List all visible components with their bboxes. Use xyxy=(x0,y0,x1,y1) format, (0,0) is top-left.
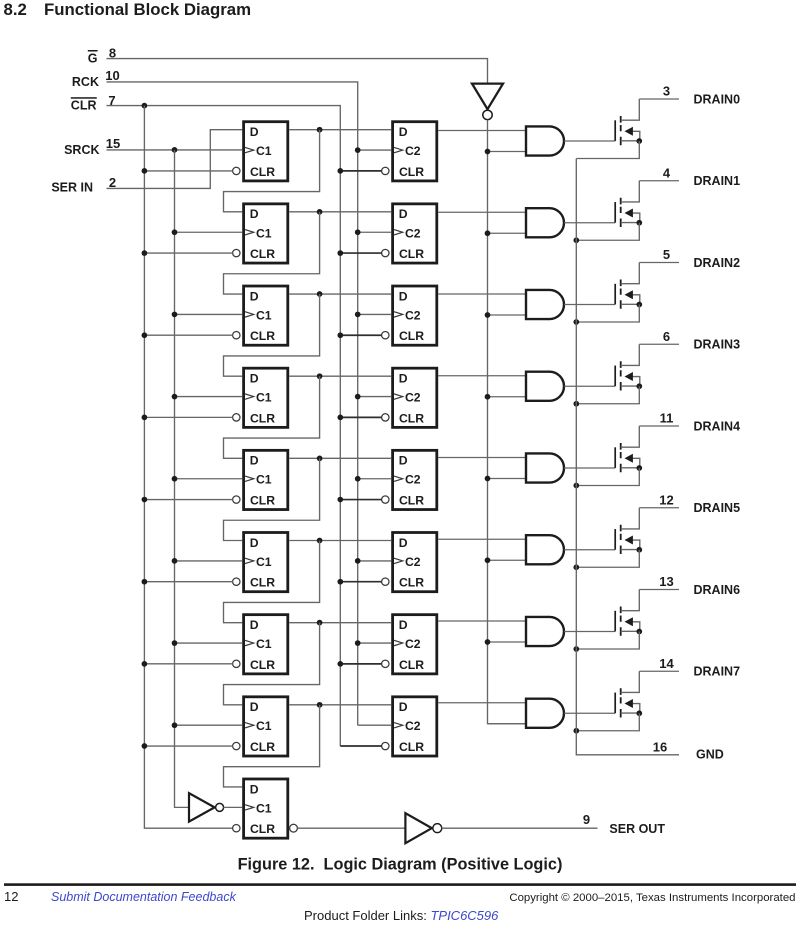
pin 8 label xyxy=(109,45,116,60)
svg-text:SER OUT: SER OUT xyxy=(609,822,665,836)
wire inverter U2 to FF9 clock xyxy=(223,806,242,808)
junction mosfet DRAIN4 source xyxy=(636,465,642,471)
wire C2 CLR rail to C2 stage 1 CLR xyxy=(340,170,381,172)
svg-text:DRAIN5: DRAIN5 xyxy=(694,501,741,515)
svg-text:15: 15 xyxy=(106,136,120,151)
pin 9 label xyxy=(583,812,590,827)
junction SRCK rail stage 3 xyxy=(172,312,178,318)
pin 11 label xyxy=(660,411,674,426)
svg-text:CLR: CLR xyxy=(399,658,424,672)
wire AND 4 output to gate xyxy=(564,385,615,387)
input label SRCK xyxy=(64,143,99,157)
junction C1 CLR rail stage 8 xyxy=(142,743,148,749)
svg-text:C2: C2 xyxy=(405,719,421,733)
section heading 8.2 xyxy=(4,0,27,19)
wire C2 CLR rail to C2 stage 5 CLR xyxy=(340,499,381,501)
wire G input to inverter xyxy=(107,59,488,84)
junction RCK rail stage 6 xyxy=(355,558,361,564)
svg-text:DRAIN0: DRAIN0 xyxy=(694,92,741,106)
wire Q1 to next stage D xyxy=(224,212,320,294)
svg-text:D: D xyxy=(250,700,259,714)
svg-text:CLR: CLR xyxy=(250,822,275,836)
svg-text:CLR: CLR xyxy=(399,493,424,507)
wire RCK rail to C2 stage 7 clock xyxy=(358,642,392,644)
input label SER IN xyxy=(51,181,93,195)
wire SRCK input to FF1 clock xyxy=(107,149,243,151)
D flip-flop C2 stage 6 xyxy=(382,533,437,592)
wire SRCK rail to bottom inverter xyxy=(175,150,189,807)
pin 12 label xyxy=(659,492,673,507)
svg-text:2: 2 xyxy=(109,175,116,190)
svg-text:C2: C2 xyxy=(405,473,421,487)
junction C2 CLR rail stage 5 xyxy=(337,497,343,503)
svg-text:D: D xyxy=(399,289,408,303)
junction mosfet DRAIN5 source xyxy=(636,547,642,553)
junction GND rail row 8 xyxy=(573,728,579,734)
label DRAIN7 xyxy=(694,665,741,679)
wire G rail to AND gate 1 xyxy=(488,151,527,153)
mosfet Q2 (power DMOS DRAIN2) xyxy=(615,263,640,309)
svg-text:D: D xyxy=(399,125,408,139)
wire DRAIN1 source to GND rail xyxy=(576,223,639,241)
svg-text:16: 16 xyxy=(653,740,667,755)
svg-text:DRAIN1: DRAIN1 xyxy=(694,174,741,188)
D flip-flop C2 stage 4 xyxy=(382,368,437,427)
wire RCK rail to C2 stage 1 clock xyxy=(358,149,392,151)
wire C1 stage 1 Q to C2 stage 1 D xyxy=(289,129,391,131)
wire AND 6 output to gate xyxy=(564,549,615,551)
svg-text:SRCK: SRCK xyxy=(64,143,99,157)
wire Q0 to next stage D xyxy=(224,130,320,212)
junction mosfet DRAIN6 source xyxy=(636,629,642,635)
svg-text:DRAIN7: DRAIN7 xyxy=(694,665,741,679)
pin 15 label xyxy=(106,136,120,151)
mosfet Q0 (power DMOS DRAIN0) xyxy=(615,99,640,145)
svg-text:11: 11 xyxy=(660,411,674,426)
pin 7 label xyxy=(108,93,115,108)
and-gate A3 xyxy=(526,372,564,401)
label DRAIN4 xyxy=(694,419,741,433)
wire pin DRAIN3 xyxy=(639,343,679,345)
junction G rail stage 1 xyxy=(485,149,491,155)
svg-text:C1: C1 xyxy=(256,637,272,651)
junction G rail stage 5 xyxy=(485,476,491,482)
D flip-flop C2 stage 3 xyxy=(382,286,437,345)
junction GND rail row 2 xyxy=(573,237,579,243)
junction GND rail row 7 xyxy=(573,646,579,652)
wire C2 stage 4 Q to AND gate xyxy=(438,375,526,377)
wire G rail to AND gate 8 xyxy=(488,723,527,725)
svg-text:D: D xyxy=(250,289,259,303)
wire C1 stage 2 Q to C2 stage 2 D xyxy=(289,211,391,213)
svg-text:CLR: CLR xyxy=(250,576,275,590)
and-gate A6 xyxy=(526,617,564,646)
svg-text:D: D xyxy=(399,618,408,632)
wire AND 5 output to gate xyxy=(564,467,615,469)
wire Q3 to next stage D xyxy=(224,376,320,458)
junction C1 CLR rail stage 1 xyxy=(142,168,148,174)
D flip-flop FF9 (SER OUT stage) xyxy=(233,779,288,838)
wire DRAIN0 source to GND rail xyxy=(576,141,639,159)
wire SRCK rail to C1 stage 2 clock xyxy=(175,231,243,233)
svg-text:CLR: CLR xyxy=(71,99,97,113)
svg-text:C1: C1 xyxy=(256,391,272,405)
junction SRCK / SRCK rail xyxy=(172,147,178,153)
and-gate A5 xyxy=(526,535,564,564)
pin 3 label xyxy=(663,84,670,99)
svg-text:CLR: CLR xyxy=(399,247,424,261)
junction C2 CLR rail stage 6 xyxy=(337,579,343,585)
D flip-flop C1 stage 5 xyxy=(233,450,288,509)
wire CLR rail to C1 stage 4 CLR xyxy=(144,416,232,418)
D flip-flop C2 stage 1 xyxy=(382,122,437,181)
svg-text:GND: GND xyxy=(696,748,724,762)
junction C2 CLR rail stage 4 xyxy=(337,415,343,421)
svg-text:SER IN: SER IN xyxy=(51,181,93,195)
svg-text:C2: C2 xyxy=(405,637,421,651)
svg-text:C1: C1 xyxy=(256,308,272,322)
wire Q2 to next stage D xyxy=(224,294,320,376)
pin 6 label xyxy=(663,329,670,344)
junction RCK rail stage 4 xyxy=(355,394,361,400)
svg-text:3: 3 xyxy=(663,84,670,99)
junction RCK rail stage 5 xyxy=(355,476,361,482)
wire AND 2 output to gate xyxy=(564,222,615,224)
junction G rail stage 6 xyxy=(485,557,491,563)
wire G rail to AND gate 5 xyxy=(488,478,527,480)
junction GND rail row 5 xyxy=(573,483,579,489)
junction SRCK rail stage 7 xyxy=(172,640,178,646)
wire pin DRAIN4 xyxy=(639,425,679,427)
wire pin DRAIN7 xyxy=(639,670,679,672)
svg-text:C1: C1 xyxy=(256,801,272,815)
wire pin DRAIN6 xyxy=(639,589,679,591)
label DRAIN5 xyxy=(694,501,741,515)
svg-text:CLR: CLR xyxy=(250,493,275,507)
svg-text:4: 4 xyxy=(663,165,671,180)
junction C2 CLR rail stage 3 xyxy=(337,332,343,338)
svg-text:DRAIN3: DRAIN3 xyxy=(694,338,741,352)
svg-text:D: D xyxy=(250,125,259,139)
svg-text:DRAIN6: DRAIN6 xyxy=(694,583,741,597)
D flip-flop C1 stage 7 xyxy=(233,615,288,674)
junction node Q6 shift output xyxy=(317,620,323,626)
wire pin DRAIN0 xyxy=(639,98,679,100)
and-gate A1 xyxy=(526,208,564,237)
wire AND 8 output to gate xyxy=(564,712,615,714)
wire DRAIN4 source to GND rail xyxy=(576,468,639,486)
inverter U2 (SRCK invert for SER OUT stage) xyxy=(189,793,224,821)
wire C2 stage 8 Q to AND gate xyxy=(438,702,526,704)
pin 16 label xyxy=(653,740,667,755)
junction G rail stage 4 xyxy=(485,394,491,400)
junction C1 CLR rail stage 7 xyxy=(142,661,148,667)
svg-text:9: 9 xyxy=(583,812,590,827)
svg-text:CLR: CLR xyxy=(250,329,275,343)
wire AND 1 output to gate xyxy=(564,140,615,142)
wire C1 stage 8 Q to C2 stage 8 D xyxy=(289,704,391,706)
junction C1 CLR rail stage 5 xyxy=(142,497,148,503)
wire DRAIN7 source to GND rail xyxy=(576,713,639,731)
svg-text:6: 6 xyxy=(663,329,670,344)
junction C2 CLR rail stage 2 xyxy=(337,250,343,256)
wire pin DRAIN1 xyxy=(639,180,679,182)
wire SRCK rail to C1 stage 5 clock xyxy=(175,478,243,480)
pin 4 label xyxy=(663,165,671,180)
svg-text:CLR: CLR xyxy=(250,658,275,672)
junction node Q7 shift output xyxy=(317,702,323,708)
wire SRCK rail to C1 stage 8 clock xyxy=(175,724,243,726)
svg-text:C2: C2 xyxy=(405,226,421,240)
wire C1 stage 6 Q to C2 stage 6 D xyxy=(289,540,391,542)
junction C2 CLR rail stage 1 xyxy=(337,168,343,174)
wire SER IN to FF1 D xyxy=(107,130,243,189)
junction RCK rail stage 3 xyxy=(355,312,361,318)
wire G rail to AND gate 2 xyxy=(488,232,527,234)
svg-text:13: 13 xyxy=(659,574,673,589)
wire CLR rail to C1 stage 1 CLR xyxy=(144,170,232,172)
junction GND rail row 3 xyxy=(573,319,579,325)
wire SRCK rail to C1 stage 6 clock xyxy=(175,560,243,562)
svg-text:C1: C1 xyxy=(256,226,272,240)
junction GND rail row 4 xyxy=(573,401,579,407)
wire C2 stage 2 Q to AND gate xyxy=(438,211,526,213)
svg-text:RCK: RCK xyxy=(72,75,99,89)
svg-text:C2: C2 xyxy=(405,144,421,158)
label DRAIN6 xyxy=(694,583,741,597)
input label G-bar xyxy=(88,52,98,66)
mosfet Q5 (power DMOS DRAIN5) xyxy=(615,508,640,554)
svg-text:CLR: CLR xyxy=(250,247,275,261)
junction G rail stage 7 xyxy=(485,639,491,645)
svg-text:CLR: CLR xyxy=(399,165,424,179)
svg-text:CLR: CLR xyxy=(399,576,424,590)
pin 5 label xyxy=(663,247,670,262)
wire CLR rail to C1 stage 3 CLR xyxy=(144,334,232,336)
D flip-flop C1 stage 2 xyxy=(233,204,288,263)
wire SRCK rail to C1 stage 4 clock xyxy=(175,396,243,398)
wire RCK rail to C2 stage 6 clock xyxy=(358,560,392,562)
figure caption xyxy=(238,856,563,874)
svg-text:12: 12 xyxy=(659,492,673,507)
svg-text:D: D xyxy=(250,207,259,221)
wire SRCK rail to C1 stage 7 clock xyxy=(175,642,243,644)
wire pin DRAIN5 xyxy=(639,507,679,509)
wire C2 stage 3 Q to AND gate xyxy=(438,293,526,295)
wire CLR rail to C1 stage 5 CLR xyxy=(144,499,232,501)
junction SRCK rail stage 6 xyxy=(172,558,178,564)
junction mosfet DRAIN7 source xyxy=(636,710,642,716)
mosfet Q1 (power DMOS DRAIN1) xyxy=(615,181,640,227)
junction node Q1 shift output xyxy=(317,209,323,215)
svg-text:Submit Documentation Feedback: Submit Documentation Feedback xyxy=(51,890,237,904)
pin 10 label xyxy=(105,68,119,83)
junction C1 CLR rail stage 3 xyxy=(142,332,148,338)
label DRAIN0 xyxy=(694,92,741,106)
wire G rail to AND gates xyxy=(488,120,527,724)
wire C2 CLR rail to C2 stage 6 CLR xyxy=(340,581,381,583)
junction mosfet DRAIN2 source xyxy=(636,302,642,308)
wire Q5 to next stage D xyxy=(224,541,320,623)
junction node Q0 shift output xyxy=(317,127,323,133)
junction RCK rail stage 1 xyxy=(355,147,361,153)
svg-text:C2: C2 xyxy=(405,555,421,569)
label DRAIN2 xyxy=(694,256,741,270)
wire G rail to AND gate 4 xyxy=(488,396,527,398)
wire RCK rail to C2 stage 8 clock xyxy=(358,724,392,726)
svg-text:D: D xyxy=(250,782,259,796)
wire C2 CLR rail to C2 stage 7 CLR xyxy=(340,663,381,665)
page number xyxy=(4,889,18,904)
and-gate A7 xyxy=(526,699,564,728)
label SER OUT xyxy=(609,822,665,836)
mosfet Q3 (power DMOS DRAIN3) xyxy=(615,344,640,390)
svg-text:C2: C2 xyxy=(405,308,421,322)
junction SRCK rail stage 2 xyxy=(172,229,178,235)
mosfet Q4 (power DMOS DRAIN4) xyxy=(615,426,640,472)
wire pin DRAIN2 xyxy=(639,262,679,264)
pin 14 label xyxy=(659,656,674,671)
wire C2 stage 7 Q to AND gate xyxy=(438,620,526,622)
wire FF9 output to inverter U3 xyxy=(298,827,406,829)
overline of CLR xyxy=(71,97,97,99)
D flip-flop C1 stage 6 xyxy=(233,533,288,592)
product folder links line xyxy=(304,908,499,923)
wire G rail to AND gate 7 xyxy=(488,641,527,643)
svg-text:Functional Block Diagram: Functional Block Diagram xyxy=(44,0,251,19)
junction SRCK rail stage 8 xyxy=(172,722,178,728)
svg-text:CLR: CLR xyxy=(250,740,275,754)
wire C1 stage 4 Q to C2 stage 4 D xyxy=(289,375,391,377)
wire G rail to AND gate 6 xyxy=(488,559,527,561)
link Submit Documentation Feedback xyxy=(51,890,237,904)
wire C2 stage 1 Q to AND gate xyxy=(438,130,526,132)
svg-text:D: D xyxy=(399,536,408,550)
wire AND 3 output to gate xyxy=(564,304,615,306)
copyright notice xyxy=(509,892,795,904)
svg-text:C1: C1 xyxy=(256,144,272,158)
input label RCK xyxy=(72,75,99,89)
svg-text:D: D xyxy=(399,454,408,468)
wire C1 stage 7 Q to C2 stage 7 D xyxy=(289,622,391,624)
junction RCK rail stage 7 xyxy=(355,640,361,646)
svg-text:D: D xyxy=(399,700,408,714)
pin 2 label xyxy=(109,175,116,190)
wire CLR rail to C1 stage 6 CLR xyxy=(144,581,232,583)
wire C2 CLR rail to C2 stage 8 CLR xyxy=(340,745,381,747)
mosfet Q6 (power DMOS DRAIN6) xyxy=(615,590,640,636)
wire SRCK rail to C1 stage 3 clock xyxy=(175,313,243,315)
svg-text:G: G xyxy=(88,52,98,66)
wire RCK rail to C2 stage 5 clock xyxy=(358,478,392,480)
wire RCK rail to C2 stage 4 clock xyxy=(358,396,392,398)
svg-text:D: D xyxy=(250,454,259,468)
overline of G xyxy=(88,50,98,52)
junction mosfet DRAIN3 source xyxy=(636,383,642,389)
junction SRCK rail stage 4 xyxy=(172,394,178,400)
wire DRAIN6 source to GND rail xyxy=(576,632,639,650)
junction SRCK rail stage 5 xyxy=(172,476,178,482)
svg-text:C2: C2 xyxy=(405,391,421,405)
junction G rail stage 3 xyxy=(485,312,491,318)
junction node Q5 shift output xyxy=(317,538,323,544)
svg-text:Copyright © 2000–2015, Texas I: Copyright © 2000–2015, Texas Instruments… xyxy=(509,892,795,904)
node FF9 output bubble xyxy=(290,824,298,832)
svg-text:C1: C1 xyxy=(256,473,272,487)
wire G rail to AND gate 3 xyxy=(488,314,527,316)
svg-text:D: D xyxy=(399,371,408,385)
junction C1 CLR rail stage 2 xyxy=(142,250,148,256)
svg-text:CLR: CLR xyxy=(250,411,275,425)
svg-text:D: D xyxy=(250,618,259,632)
wire C2 stage 6 Q to AND gate xyxy=(438,538,526,540)
svg-text:DRAIN4: DRAIN4 xyxy=(694,419,741,433)
wire C2 CLR rail to C2 stage 4 CLR xyxy=(340,416,381,418)
and-gate A4 xyxy=(526,453,564,482)
label DRAIN3 xyxy=(694,338,741,352)
svg-text:D: D xyxy=(399,207,408,221)
wire Q7 to next stage D xyxy=(224,705,320,787)
junction C1 CLR rail stage 4 xyxy=(142,415,148,421)
junction node Q2 shift output xyxy=(317,291,323,297)
wire GND rail xyxy=(576,159,679,755)
D flip-flop C1 stage 3 xyxy=(233,286,288,345)
junction mosfet DRAIN1 source xyxy=(636,220,642,226)
wire C2 CLR rail to C2 stage 2 CLR xyxy=(340,252,381,254)
label DRAIN1 xyxy=(694,174,741,188)
wire Q4 to next stage D xyxy=(224,458,320,540)
wire C1 stage 3 Q to C2 stage 3 D xyxy=(289,293,391,295)
wire AND 7 output to gate xyxy=(564,631,615,633)
svg-text:D: D xyxy=(250,536,259,550)
wire DRAIN3 source to GND rail xyxy=(576,386,639,404)
svg-text:C1: C1 xyxy=(256,555,272,569)
wire CLR rail to C1 stage 7 CLR xyxy=(144,663,232,665)
junction node Q4 shift output xyxy=(317,455,323,461)
wire CLR rail to C1 stage 8 CLR xyxy=(144,745,232,747)
junction CLR input / C1 CLR rail xyxy=(142,103,148,109)
input label CLR-bar xyxy=(71,99,97,113)
svg-text:CLR: CLR xyxy=(399,411,424,425)
and-gate A2 xyxy=(526,290,564,319)
inverter U1 (G-bar buffer) xyxy=(472,84,503,120)
wire RCK input to rail xyxy=(107,82,358,725)
wire DRAIN5 source to GND rail xyxy=(576,550,639,568)
wire C2 CLR rail to C2 stage 3 CLR xyxy=(340,334,381,336)
wire C2 stage 5 Q to AND gate xyxy=(438,457,526,459)
wire DRAIN2 source to GND rail xyxy=(576,305,639,323)
D flip-flop C1 stage 1 xyxy=(233,122,288,181)
D flip-flop C2 stage 8 xyxy=(382,697,437,756)
junction C1 CLR rail stage 6 xyxy=(142,579,148,585)
D flip-flop C2 stage 2 xyxy=(382,204,437,263)
junction G rail stage 2 xyxy=(485,230,491,236)
svg-text:DRAIN2: DRAIN2 xyxy=(694,256,741,270)
junction mosfet DRAIN0 source xyxy=(636,138,642,144)
svg-text:Product Folder Links: TPIC6C59: Product Folder Links: TPIC6C596 xyxy=(304,908,499,923)
wire SER OUT xyxy=(442,827,598,829)
inverter U3 (SER OUT driver) xyxy=(405,813,441,843)
D flip-flop C1 stage 8 xyxy=(233,697,288,756)
D flip-flop C2 stage 5 xyxy=(382,450,437,509)
wire CLR input to C2 CLR rail xyxy=(107,106,341,746)
junction C2 CLR rail stage 7 xyxy=(337,661,343,667)
svg-text:Figure 12. Logic Diagram (Pos: Figure 12. Logic Diagram (Positive Logic… xyxy=(238,856,563,874)
label GND xyxy=(696,748,724,762)
wire RCK rail to C2 stage 3 clock xyxy=(358,313,392,315)
svg-text:5: 5 xyxy=(663,247,670,262)
wire RCK rail to C2 stage 2 clock xyxy=(358,231,392,233)
